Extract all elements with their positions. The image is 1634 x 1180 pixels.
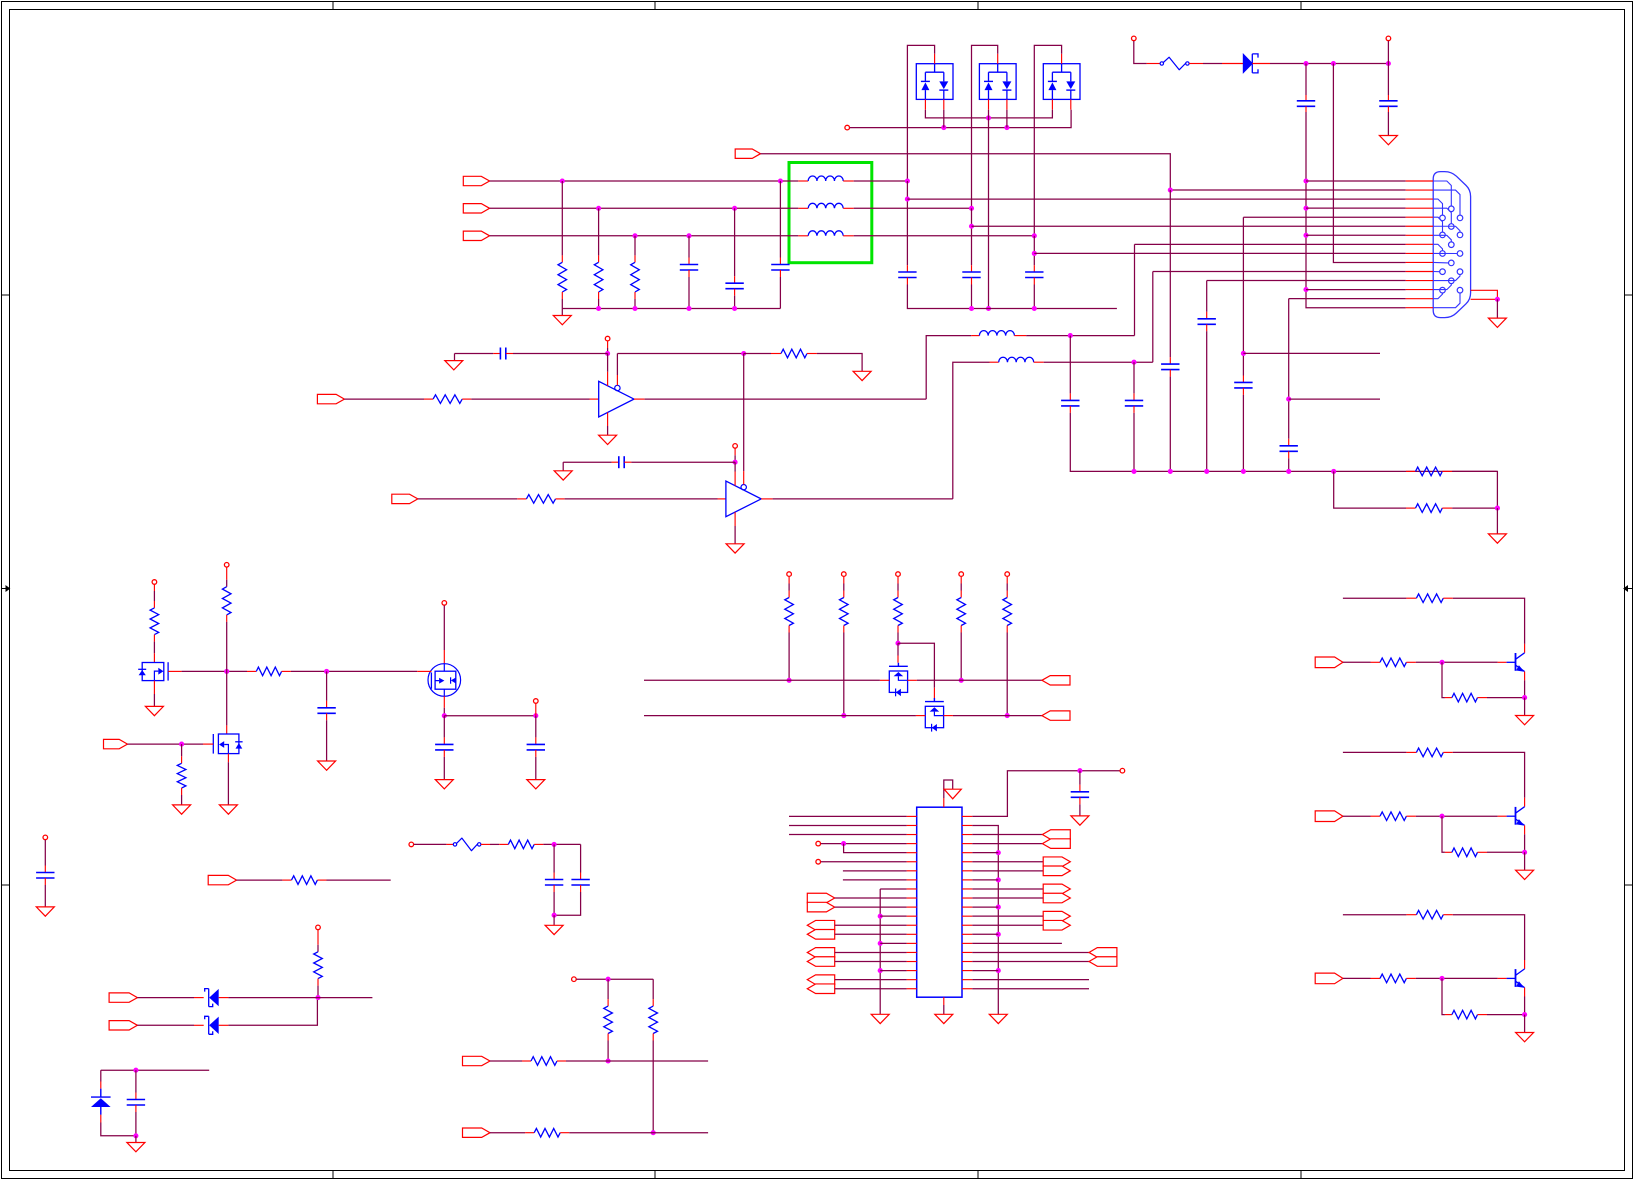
resistor R12 [177, 763, 186, 788]
wire C2 to ground [1387, 112, 1389, 136]
wire U2 L15 [880, 942, 906, 944]
pin C9 bottom [1242, 388, 1244, 395]
wire TVS D3 top loop [972, 45, 998, 208]
wire opamp2 out up to L5 [953, 362, 990, 499]
wire U2 L10 [835, 897, 907, 899]
wire R1 top [561, 181, 563, 255]
port Q7-IN [1315, 811, 1343, 822]
wire TVS D2 top loop [907, 45, 934, 181]
pin C17 bottom [326, 713, 328, 720]
wire to F2 [414, 843, 447, 845]
pin R6 right [462, 398, 471, 400]
wire U2 L17 [835, 961, 907, 963]
junction Q8 base [1439, 976, 1444, 981]
ground D7 [127, 1143, 145, 1152]
wire L4 to row8 feeder [1026, 335, 1134, 337]
wire C19 to ground [535, 757, 537, 780]
wire shell to ground [1496, 299, 1498, 318]
wire stub A right [1243, 352, 1380, 354]
transistor Q3 (circle FET) [428, 664, 461, 697]
wire R11 to Q3 gate [291, 670, 417, 672]
wire C24 down [554, 892, 581, 915]
junction left bus r18 [878, 968, 883, 973]
wire Q8 emitter down [1524, 997, 1526, 1015]
transistor Q4 (pass FET) [889, 663, 908, 667]
wire R2 to bus [598, 299, 600, 309]
capacitor C17 [317, 707, 335, 709]
junction right bus r11 [996, 905, 1001, 910]
terminal post Q1 drain supply [152, 580, 157, 585]
wire Q7 emitter down [1524, 834, 1526, 852]
junction bus3 e [1286, 469, 1291, 474]
wire to C17 [326, 671, 328, 700]
pins U2 right [962, 815, 972, 817]
wire D2 right pin drop [943, 110, 945, 128]
ground C21 [36, 907, 54, 916]
port U2-P [1043, 920, 1070, 930]
wire to C13 [1069, 336, 1071, 394]
pin L1 left [798, 180, 808, 182]
wire C4 top [734, 208, 736, 276]
wire U2 R12 [972, 915, 1043, 917]
wire U2 L11 [835, 906, 907, 908]
capacitor C24 [571, 879, 589, 881]
wire D5 to stub [228, 997, 372, 999]
transistor Q6 (NPN) [1515, 653, 1517, 671]
wire to C18 [443, 716, 445, 738]
wire U2 R20 stub [972, 988, 1089, 990]
pin R30 bottom [317, 979, 319, 986]
junction right bus r18 [996, 968, 1001, 973]
wire Q6 collector [1453, 598, 1525, 644]
wire to R12 [181, 744, 183, 756]
port RX2-IN [463, 1128, 491, 1137]
junction out2 [533, 713, 538, 718]
terminal post pull-up 1 [787, 572, 792, 577]
wire Q2 to ground [227, 762, 229, 805]
wire V1134 up segment [1134, 244, 1136, 335]
wire U2 L18 [880, 970, 906, 972]
wire row1 to DB15 [1306, 180, 1406, 182]
junction row3 out [905, 197, 910, 202]
resistor R28 [1452, 1010, 1478, 1019]
terminal post RX supply [572, 977, 577, 982]
pin R3 top [634, 255, 636, 262]
wire L5 to row11 feeder [1044, 361, 1153, 363]
pin R13 bottom [788, 626, 790, 633]
pin R8 right [556, 498, 565, 500]
wire Q7 base2 [1416, 815, 1498, 817]
wire U2 R8 [972, 879, 998, 881]
pin C2 top [1387, 95, 1389, 101]
wire R4 to node [1452, 471, 1497, 508]
transistor Q1 (box FET) [142, 663, 164, 681]
inductor L3 [808, 231, 843, 236]
op-amp U1B feedback bubble [741, 485, 746, 490]
wire row R to L1 [490, 180, 799, 182]
pin C16 right [624, 461, 631, 463]
wire Q6 base [1343, 661, 1371, 663]
capacitor C13 [1061, 399, 1079, 401]
junction B-R3 [632, 233, 637, 238]
wire R29 stub [327, 879, 391, 881]
wire C3 top [688, 236, 690, 258]
wire Q6 emitter down [1524, 680, 1526, 697]
wire U2 L2 [789, 824, 907, 826]
wire D6 up to node [228, 1000, 317, 1025]
pin Q3 bottom [443, 696, 445, 708]
pin C2 bottom [1387, 106, 1389, 112]
pin Q7 emitter [1524, 825, 1526, 834]
pin C24 top [580, 873, 582, 880]
wire U2 R6 [972, 861, 1043, 863]
resistor R10 [222, 587, 231, 615]
junction pu2 [841, 713, 846, 718]
wire C10 to bus3 [1206, 331, 1208, 471]
capacitor C19 [527, 743, 545, 745]
junction right bus r8 [996, 877, 1001, 882]
pin R13 [788, 591, 790, 598]
resistor R29 [292, 876, 318, 885]
wire C5 top [779, 181, 781, 258]
wire pullup2 down [843, 633, 845, 716]
pin R10 top [226, 567, 228, 579]
pin Q2 bottom [227, 754, 229, 763]
terminal post R30 supply [316, 925, 321, 930]
pin U1A power [607, 341, 609, 348]
capacitor C21 [36, 872, 54, 874]
wire RX2 to R35 [490, 1132, 525, 1134]
wire U2 R9 [972, 888, 1043, 890]
wire 5V to fuse [1134, 41, 1147, 64]
junction Q6 emitter [1522, 695, 1527, 700]
junction Q7 base [1439, 814, 1444, 819]
wire R8 to opamp2 [565, 498, 718, 500]
pin U1A gnd [607, 412, 609, 426]
wire R9 to Q1 [153, 642, 155, 654]
wire to C1 [1305, 64, 1307, 96]
pin C1 bottom [1305, 106, 1307, 112]
wire C21 to ground [44, 885, 46, 907]
pin C10 bottom [1206, 324, 1208, 331]
wire U2 L3 [789, 834, 907, 836]
wire ground bus2 [907, 285, 1117, 309]
port U2-L [1043, 866, 1070, 876]
junction gate-C17 [324, 669, 329, 674]
wire V1034 down [1033, 236, 1035, 265]
resistor R32 [604, 1006, 613, 1033]
wire row6 to DB15 [972, 225, 1406, 227]
ground C20 [1071, 816, 1089, 825]
pin D6 anode [194, 1024, 204, 1026]
wire pullup4 down [960, 633, 962, 681]
pin R26 right [1443, 914, 1453, 916]
pins D3 [997, 54, 999, 64]
pin diode D1 anode [1222, 63, 1243, 65]
pin R15 bottom [897, 626, 899, 633]
terminal post pull-up 3 [896, 572, 901, 577]
wire row9 to DB15 [1034, 252, 1405, 254]
wire fb to R7 [744, 353, 771, 355]
pin C20 bottom [1079, 797, 1081, 804]
junction gate-R10 [224, 669, 229, 674]
wire power into U1A [607, 354, 609, 372]
pin C11 bottom [1288, 451, 1290, 458]
wire L3 to node [854, 235, 1035, 237]
wire TVS D3 left pin to ground bus [988, 110, 990, 309]
capacitor C23 [545, 879, 563, 881]
pin C6 bottom [906, 278, 908, 285]
wire rail2 left [563, 461, 611, 463]
port U2-M [1043, 884, 1070, 894]
resistor R11 [256, 667, 281, 676]
ground Q6 [1516, 716, 1534, 725]
pin Q6 collector [1524, 644, 1526, 653]
pin C19 bottom [535, 750, 537, 757]
wire Q7 collector [1453, 752, 1525, 797]
resistor R34 [531, 1057, 557, 1066]
pin L4 right [1014, 335, 1026, 337]
wire U1B power to rail [734, 455, 736, 462]
wire to ground [135, 1136, 137, 1143]
junction Q6 base [1439, 660, 1444, 665]
wire U2 right bus [972, 825, 998, 1014]
ground C18 [435, 780, 453, 789]
pin R9 bottom [153, 635, 155, 642]
capacitor C16 [618, 456, 620, 468]
junction Q3 out [442, 713, 447, 718]
junction right bus r14 [996, 932, 1001, 937]
wire feedback rail [617, 353, 743, 355]
pin out2 [535, 704, 537, 716]
wire U2 L5 [844, 844, 907, 853]
pin C24 bottom [580, 885, 582, 892]
resistor R31 [508, 840, 534, 849]
pin R1 top [561, 255, 563, 262]
TVS dual-diode package D3 [979, 64, 1016, 100]
wire R3 top [634, 236, 636, 256]
capacitor C12 [1161, 363, 1179, 365]
pin R29 left [282, 879, 291, 881]
junction row7 [1303, 233, 1308, 238]
pin R34 left [522, 1060, 531, 1062]
pin U1A fb [616, 375, 618, 385]
wire D7 to bottom rail [101, 1123, 136, 1136]
pin U1B vcc [734, 472, 736, 486]
wire C8 to bus2 [1033, 285, 1035, 309]
junction pu4 [959, 678, 964, 683]
pin Q2 gate [203, 743, 213, 745]
junction row9 out [1032, 251, 1037, 256]
transistor Q7 (NPN) [1515, 807, 1517, 825]
pin R8 left [517, 498, 526, 500]
pin R12 top [181, 756, 183, 763]
ground R7 [853, 371, 871, 380]
junction R4-R5 [1495, 506, 1500, 511]
pin C11 top [1288, 439, 1290, 446]
resistor R26 [1416, 910, 1443, 919]
wire bus3 to R5 [1334, 471, 1406, 508]
wire Q8 base [1343, 977, 1371, 979]
junction on ground bus2 [986, 306, 991, 311]
pin R22 right [1478, 697, 1488, 699]
pin R16 top [960, 577, 962, 584]
terminal post pull-up 2 [842, 572, 847, 577]
terminal post R10 supply [224, 563, 229, 568]
wire TVS left-pins rail [925, 110, 1052, 118]
inductor L5 [999, 357, 1034, 362]
wire to R13 [788, 584, 790, 591]
wire gate Q5 [898, 643, 934, 688]
wire to R30 [317, 945, 319, 952]
wire Q6 BE left [1442, 662, 1445, 697]
wire to R9 [153, 591, 155, 601]
wire to R33 [652, 979, 654, 999]
pin Q8 emitter [1524, 988, 1526, 997]
pin R32 top [607, 999, 609, 1006]
pin R33 bottom [652, 1034, 654, 1041]
junction C23 [552, 842, 557, 847]
pin R35 right [560, 1132, 569, 1134]
port U2-R [1089, 957, 1117, 967]
capacitor C14 [1125, 399, 1143, 401]
wire L1 to node [854, 180, 908, 182]
wire row G to L2 [490, 207, 799, 209]
pin R11 right [282, 670, 291, 672]
wire U2 L13 [835, 924, 907, 926]
resistor R27 [1380, 974, 1406, 983]
wire row3 to DB15 [907, 198, 1405, 200]
wire Q7 top [1343, 751, 1407, 753]
junction row6 out [969, 224, 974, 229]
junction pu3 [895, 641, 900, 646]
wire F1 to D1 [1203, 63, 1222, 65]
pin C14 top [1133, 393, 1135, 400]
wire pullup3 down [897, 633, 899, 644]
ground F2 caps [545, 925, 563, 934]
pin Q1 gate [168, 670, 182, 672]
wire to C20 [1079, 771, 1081, 785]
wire rail left [455, 353, 494, 355]
port U2-K [1043, 857, 1070, 867]
pin C15 left [493, 353, 500, 355]
port U2-N [1043, 893, 1070, 903]
port U2-G [807, 975, 834, 985]
pin C21 bottom [44, 878, 46, 885]
wire Q8 top [1343, 914, 1407, 916]
junction row4 [1303, 206, 1308, 211]
junction bottom rail [133, 1133, 138, 1138]
port SENSE1-IN [109, 993, 137, 1002]
junction U1A power rail [605, 351, 610, 356]
wire to bubble [616, 354, 618, 376]
junction left bus r12 [878, 914, 883, 919]
pin R5 left [1406, 507, 1416, 509]
resistor R7 [781, 349, 807, 358]
terminal post pull-up 5 [1005, 572, 1010, 577]
wire Q8 collector [1453, 915, 1525, 960]
wire Q7 to ground [1524, 852, 1526, 870]
transistor Q8 (NPN) [1515, 969, 1517, 987]
pin Q5 left [916, 715, 925, 717]
wire U2 L20 [835, 988, 907, 990]
wire U2 top hook [944, 780, 953, 798]
wire V1288 down [1288, 299, 1290, 439]
pin Q6 emitter [1524, 672, 1526, 681]
port SENSE2-IN [109, 1021, 137, 1030]
pin U2 bottom [943, 997, 945, 1005]
wire R2 top [598, 208, 600, 255]
pin C4 bottom [734, 289, 736, 296]
ground U2 bottom [935, 1014, 953, 1023]
junction Q7 emitter [1522, 850, 1527, 855]
resistor R8 [526, 495, 555, 504]
pin R35 left [525, 1132, 534, 1134]
wire V971 down [971, 208, 973, 265]
wire U2 L6 [821, 861, 907, 863]
diode D1 [1243, 54, 1252, 72]
wire to ground [1496, 508, 1498, 534]
port U2-H [807, 984, 834, 994]
pin C9 top [1242, 376, 1244, 383]
pin R12 bottom [181, 788, 183, 795]
wire row7 to DB15 [1306, 234, 1406, 236]
wire C1 to row1 node [1305, 112, 1307, 181]
wire C16 to U1B power [631, 461, 735, 463]
resistor R15 [894, 598, 903, 626]
resistor R20 [1416, 594, 1443, 603]
wire U2 R7 [972, 870, 1043, 872]
pin fuse F1 right [1189, 63, 1203, 65]
wire to R10 [226, 580, 228, 587]
wire to C14 [1133, 362, 1135, 393]
wire U2 R17 [972, 961, 1089, 963]
pin R4 left [1406, 470, 1416, 472]
pin Q1 top [153, 653, 155, 662]
terminal post out2 [534, 699, 539, 704]
wire Q6 to ground [1524, 698, 1526, 716]
pin C7 top [971, 265, 973, 272]
terminal post U2 L6 [816, 859, 821, 864]
wire U2 R11 [972, 906, 998, 908]
terminal post Q3 supply [442, 601, 447, 606]
wire U2 L1 [789, 815, 907, 817]
wire R12 to ground [181, 795, 183, 805]
pin R31 right [534, 843, 543, 845]
junction fb node [741, 351, 746, 356]
pin C23 top [553, 873, 555, 880]
junction row13 [1303, 287, 1308, 292]
resistor R2 [594, 262, 603, 292]
pin R27 left [1371, 977, 1381, 979]
pin R15 top [897, 577, 899, 584]
pin R6 left [424, 398, 433, 400]
terminal post C21 [43, 835, 48, 840]
pin diode D1 cathode [1252, 63, 1270, 65]
pin F2 left [446, 843, 453, 845]
wire C15 to U1A power [513, 353, 608, 355]
terminal post F2 [409, 842, 414, 847]
pin U1B power [734, 449, 736, 456]
junction RX1 [606, 1058, 611, 1063]
wire U2 R19 stub [972, 979, 1089, 981]
wire row11 to DB15 [1153, 271, 1406, 273]
pin Q3 gate [417, 670, 431, 672]
pin C21 top [44, 866, 46, 873]
ground bus1 [553, 316, 571, 325]
junction bus3 a [1131, 469, 1136, 474]
wire Q3 node right [444, 715, 536, 717]
